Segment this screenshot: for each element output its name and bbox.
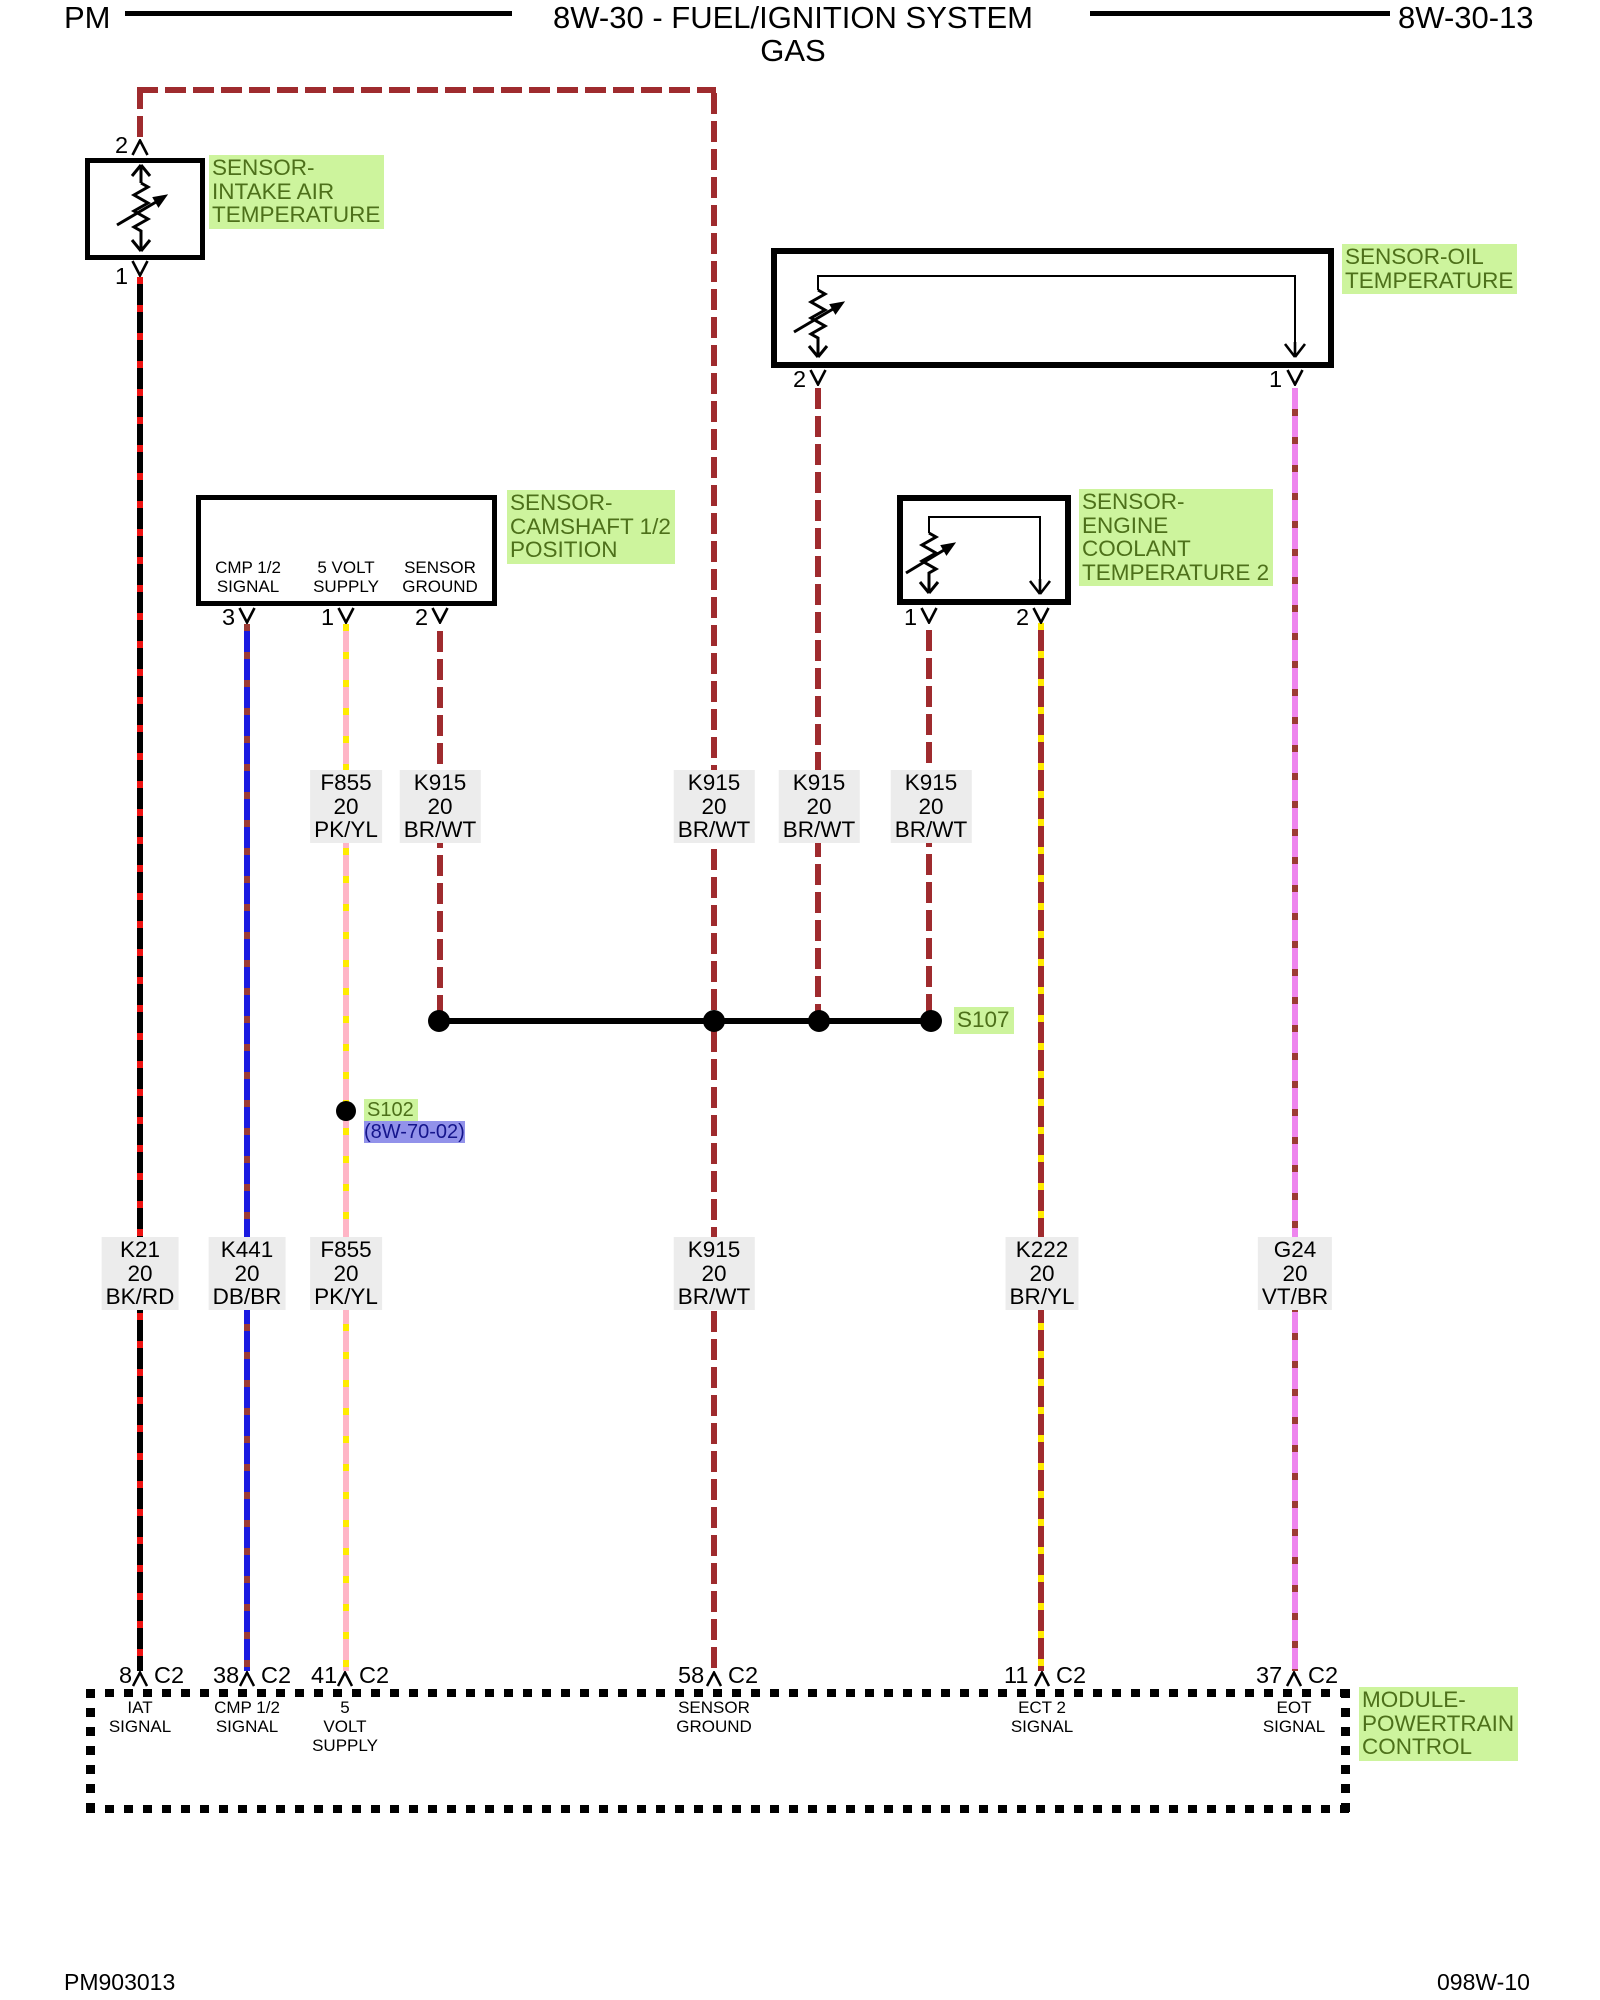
wire label K915 20 BR/WT (upper, CMP ground) bbox=[400, 770, 481, 843]
pin 41 name 5 VOLT SUPPLY bbox=[295, 1698, 395, 1755]
splice S107 junction dot 2 bbox=[703, 1010, 725, 1032]
pin 3 chevron (CMP) bbox=[238, 607, 256, 624]
sensor U1 IAT thermistor symbol bbox=[100, 163, 180, 255]
wire label F855 20 PK/YL (upper) bbox=[310, 770, 382, 843]
pin 37 chevron (PCM) bbox=[1286, 1671, 1302, 1687]
pin 8 number (PCM) bbox=[119, 1662, 132, 1689]
pin 2 chevron (oil temp) bbox=[809, 369, 827, 386]
wire K915 top run: vertical from IAT pin 2 bbox=[137, 88, 143, 140]
wire K915 from ECT pin 1 to splice S107 bbox=[926, 623, 932, 1018]
pin 38 number (PCM) bbox=[213, 1662, 239, 1689]
sensor U4 ECT thermistor and internal wire bbox=[903, 501, 1065, 599]
pin 37 number (PCM) bbox=[1256, 1662, 1282, 1689]
pin 8 connector C2 bbox=[154, 1662, 184, 1689]
pin 2 number (CMP) bbox=[415, 604, 428, 631]
sensor U2 oil temp thermistor and internal wire bbox=[777, 254, 1328, 362]
pin 11 name ECT 2 SIGNAL bbox=[992, 1698, 1092, 1736]
pin 11 number (PCM) bbox=[1004, 1662, 1028, 1689]
pin 1 number (oil temp) bbox=[1269, 366, 1282, 393]
pin 38 chevron (PCM) bbox=[239, 1671, 255, 1687]
sensor U3 camshaft position box bbox=[196, 495, 497, 606]
sensor U1 IAT label bbox=[209, 155, 384, 229]
module PCM dashed box right edge bbox=[1341, 1689, 1350, 1814]
wire K915 top run: horizontal segment bbox=[137, 87, 716, 93]
splice S107 junction dot 1 bbox=[428, 1010, 450, 1032]
sensor U2 oil temperature box bbox=[771, 248, 1334, 368]
pin 1 number (CMP) bbox=[321, 604, 334, 631]
module PCM label bbox=[1359, 1687, 1518, 1761]
wire label K915 20 BR/WT (lower) bbox=[674, 1237, 755, 1310]
module PCM dashed box left edge bbox=[86, 1689, 95, 1814]
pin 1 chevron (IAT) bbox=[131, 260, 149, 277]
pin 8 name IAT SIGNAL bbox=[90, 1698, 190, 1736]
splice S107 junction dot 4 bbox=[920, 1010, 942, 1032]
sensor U1 IAT box bbox=[85, 158, 205, 260]
wire K222 from ECT pin 2 to PCM pin 11 bbox=[1038, 623, 1044, 1671]
header title line 2 GAS bbox=[543, 33, 1043, 69]
header left PM bbox=[64, 0, 111, 36]
pin 37 connector C2 bbox=[1308, 1662, 1338, 1689]
pin 2 chevron (CMP) bbox=[431, 607, 449, 624]
pin 38 name CMP 1/2 SIGNAL bbox=[197, 1698, 297, 1736]
node S102 label bbox=[364, 1099, 418, 1123]
5 VOLT SUPPLY pin name bbox=[296, 558, 396, 596]
pin 2 chevron (IAT) bbox=[131, 139, 149, 156]
pin 2 number (oil temp) bbox=[793, 366, 806, 393]
wire label K441 20 DB/BR bbox=[209, 1237, 286, 1310]
pin 1 chevron (oil temp) bbox=[1286, 369, 1304, 386]
pin 2 number (IAT) bbox=[115, 132, 128, 159]
wire K915 top run: vertical down to splice S107 bbox=[711, 93, 717, 1018]
pin 41 number (PCM) bbox=[311, 1662, 337, 1689]
SENSOR GROUND pin name bbox=[390, 558, 490, 596]
splice S102 dot bbox=[336, 1101, 356, 1121]
footer left PM903013 bbox=[64, 1969, 175, 1996]
pin 8 chevron (PCM) bbox=[132, 1671, 148, 1687]
pin 41 chevron (PCM) bbox=[337, 1671, 353, 1687]
pin 37 name EOT SIGNAL bbox=[1244, 1698, 1344, 1736]
wire label K915 20 BR/WT (upper, from IAT) bbox=[674, 770, 755, 843]
splice S107 bus bbox=[439, 1018, 931, 1024]
pin 2 number (ECT) bbox=[1016, 604, 1029, 631]
pin 11 connector C2 bbox=[1056, 1662, 1086, 1689]
sensor U4 engine coolant temperature 2 box bbox=[897, 495, 1071, 605]
wire label G24 20 VT/BR bbox=[1258, 1237, 1332, 1310]
pin 38 connector C2 bbox=[261, 1662, 291, 1689]
pin 58 chevron (PCM) bbox=[706, 1671, 722, 1687]
pin 41 connector C2 bbox=[359, 1662, 389, 1689]
sensor U3 camshaft label bbox=[507, 490, 675, 564]
pin 58 name SENSOR GROUND bbox=[664, 1698, 764, 1736]
node S102 reference (8W-70-02) bbox=[364, 1121, 465, 1143]
pin 58 number (PCM) bbox=[678, 1662, 704, 1689]
pin 58 connector C2 bbox=[728, 1662, 758, 1689]
pin 11 chevron (PCM) bbox=[1034, 1671, 1050, 1687]
wire G24 from oil temp pin 1 to PCM pin 37 bbox=[1292, 388, 1298, 1671]
pin 1 number (ECT) bbox=[904, 604, 917, 631]
sensor U4 ECT label bbox=[1079, 489, 1273, 586]
header page number bbox=[1398, 0, 1534, 36]
wire K441 from CMP pin 3 to PCM pin 38 bbox=[244, 624, 250, 1671]
node S107 label bbox=[954, 1007, 1014, 1034]
module PCM dashed box bottom edge bbox=[86, 1805, 1350, 1813]
header left rule bbox=[125, 11, 512, 16]
header title bbox=[543, 0, 1043, 36]
wire K21 from IAT pin 1 to PCM pin 8 bbox=[137, 277, 143, 1671]
pin 1 chevron (CMP) bbox=[337, 607, 355, 624]
pin 2 chevron (ECT) bbox=[1032, 607, 1050, 624]
CMP 1/2 SIGNAL pin name bbox=[198, 558, 298, 596]
footer right 098W-10 bbox=[1437, 1969, 1530, 1996]
wire K915 from CMP pin 2 to splice S107 bbox=[437, 624, 443, 1018]
pin 1 number (IAT) bbox=[115, 263, 128, 290]
sensor U2 oil temperature label bbox=[1342, 244, 1517, 294]
wire label K915 20 BR/WT (upper, ECT) bbox=[891, 770, 972, 843]
splice S107 junction dot 3 bbox=[808, 1010, 830, 1032]
pin 3 number (CMP) bbox=[222, 604, 235, 631]
wire K915 from splice S107 to PCM pin 58 bbox=[711, 1024, 717, 1671]
wire F855 from CMP pin 1 to PCM pin 41 bbox=[343, 624, 349, 1671]
wire K915 from oil temp pin 2 to splice S107 bbox=[815, 388, 821, 1018]
header right rule bbox=[1090, 11, 1390, 16]
module PCM dashed box top edge bbox=[86, 1689, 1350, 1697]
wire label F855 20 PK/YL (lower) bbox=[310, 1237, 382, 1310]
wire label K21 20 BK/RD bbox=[102, 1237, 179, 1310]
pin 1 chevron (ECT) bbox=[920, 607, 938, 624]
wire label K222 20 BR/YL bbox=[1005, 1237, 1078, 1310]
wire label K915 20 BR/WT (upper, oil temp) bbox=[779, 770, 860, 843]
